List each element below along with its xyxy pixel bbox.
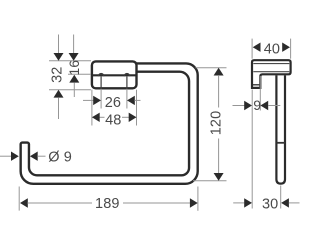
dim diameter-9 right arrow	[30, 152, 38, 161]
svg-text:120: 120	[209, 111, 225, 136]
dim 9/30 shared left extension line	[251, 90, 253, 209]
dim 40 left extension line	[251, 39, 253, 59]
dim 16 lower leader line	[73, 82, 75, 97]
dim 9 right arrow	[260, 101, 268, 110]
dim 32 bottom extension line (mount bottom)	[49, 89, 91, 91]
wall plate left rounded corner	[99, 74, 104, 77]
dim 26 right arrow	[127, 96, 135, 105]
svg-text:Ø 9: Ø 9	[48, 149, 72, 165]
dim 26 right extension line	[126, 89, 128, 109]
dim 40 left arrow	[253, 43, 261, 52]
dim 32 upper leader line	[58, 35, 60, 55]
dim 30 right extension line	[280, 186, 282, 209]
dim 16 bottom arrow	[69, 75, 79, 83]
dim 16 top arrow	[69, 53, 79, 61]
wall plate left edge (visible)	[100, 77, 102, 89]
dim 32 top arrow	[54, 53, 64, 61]
dim 120 top extension line	[196, 67, 227, 69]
dim 32/16 top extension line (mount top)	[49, 60, 91, 62]
dim 9 right leader line	[268, 105, 280, 107]
svg-text:16: 16	[66, 60, 82, 76]
dim 30 right arrow	[281, 198, 289, 207]
wall mount block (front view)	[92, 61, 137, 88]
dim 48 right extension line	[136, 90, 138, 126]
svg-text:32: 32	[50, 67, 66, 83]
wall plate right rounded corner	[124, 74, 129, 77]
svg-text:48: 48	[105, 112, 121, 128]
svg-text:40: 40	[264, 41, 280, 57]
dim diameter-9 right leader line	[37, 155, 45, 157]
dim 48 right line segment	[122, 116, 129, 118]
wall plate right edge (visible)	[126, 77, 128, 89]
dim 26 left leader line	[83, 99, 94, 101]
hanging bar (side view capsule)	[276, 75, 285, 183]
dim diameter-9 left arrow	[11, 152, 19, 161]
bar top edge seen through arm	[253, 63, 289, 65]
dim 30 left leader line	[233, 202, 244, 204]
dim 26 left extension line	[100, 89, 102, 109]
bracket outline (side view)	[252, 60, 291, 88]
dim 26 right leader line	[134, 99, 140, 101]
stub top edge across bar (side view)	[276, 142, 285, 144]
dim 120 bottom arrow	[214, 173, 224, 181]
dim 48 left extension line	[91, 90, 93, 126]
wall plate foot line (side view)	[252, 84, 260, 86]
dim 9 right extension line	[259, 76, 261, 111]
dim 120 top arrow	[214, 68, 224, 76]
dim 30 left arrow	[244, 198, 252, 207]
svg-text:9: 9	[253, 97, 261, 113]
dim 40 right extension line	[290, 39, 292, 59]
dim 189 left extension line	[18, 187, 20, 211]
dim 40 right arrow	[282, 43, 290, 52]
svg-text:30: 30	[262, 197, 278, 213]
dim 16 bottom extension line (plate split)	[68, 73, 91, 75]
dim 120 lower line segment	[218, 139, 220, 174]
dim 120 upper line segment	[218, 75, 220, 107]
dim 16 upper leader line	[73, 35, 75, 55]
dim 48 left line segment	[100, 116, 105, 118]
bar bottom edge seen through arm	[253, 71, 289, 73]
dim 26 left arrow	[93, 96, 101, 105]
dim 120 bottom extension line	[193, 180, 227, 182]
dim 9 left leader line	[233, 105, 245, 107]
svg-text:26: 26	[105, 95, 121, 111]
dim 189 right arrow	[190, 198, 198, 207]
dim 48 left arrow	[92, 113, 100, 122]
dim 189 right line segment	[123, 202, 190, 204]
dim 32 lower leader line	[58, 97, 60, 119]
dim diameter-9 left leader line	[0, 155, 11, 157]
dim 189 left arrow	[20, 198, 28, 207]
dim 48 right arrow	[129, 113, 137, 122]
dim 189 left line segment	[27, 202, 92, 204]
dim 9 left arrow	[244, 101, 252, 110]
svg-text:189: 189	[95, 196, 120, 212]
dim 30 right leader line	[289, 202, 300, 204]
dim 189 right extension line	[197, 187, 199, 211]
dim 32 bottom arrow	[54, 90, 64, 98]
mount cover/plate split line	[92, 74, 137, 76]
towel ring bar outline (front view silhouette)	[21, 63, 198, 183]
